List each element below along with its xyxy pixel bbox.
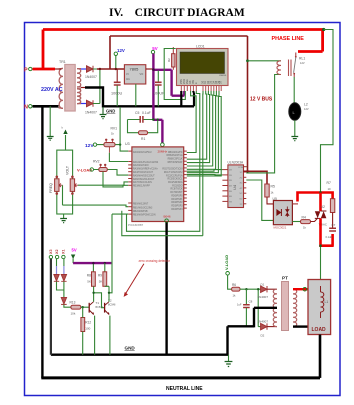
svg-text:C5: C5: [135, 111, 139, 115]
svg-text:RB4/AN11/PC: RB4/AN11/PC: [168, 151, 183, 154]
svg-text:5V: 5V: [72, 248, 77, 253]
svg-text:RA2/AN2/C2IN: RA2/AN2/C2IN: [133, 164, 149, 167]
wire U4 output to U5 pin2: [246, 180, 273, 220]
node 12V bus / R5 feed junction: [246, 170, 249, 173]
svg-text:1N4007: 1N4007: [258, 320, 269, 324]
svg-text:7C: 7C: [240, 204, 243, 206]
svg-text:RA5/AN4/SS/C2OUT: RA5/AN4/SS/C2OUT: [133, 174, 155, 177]
wire neutral line bottom: [41, 376, 320, 379]
svg-text:U2: U2: [321, 205, 325, 209]
svg-text:LM016L: LM016L: [219, 75, 227, 77]
svg-text:0.1uF: 0.1uF: [326, 235, 333, 239]
svg-text:R7: R7: [327, 181, 331, 185]
wire U5 pin4 to R4: [292, 221, 300, 223]
svg-text:1C: 1C: [240, 172, 243, 174]
wire 12V terminal down: [115, 56, 117, 70]
wire red PT secondary to LOAD: [293, 288, 308, 290]
wire X3 to ground bus: [50, 259, 52, 355]
wire red U5 pin6 up to triac node: [298, 193, 333, 202]
svg-text:N: N: [24, 105, 28, 111]
ground hanging from neutral wire: [49, 106, 51, 136]
wire R13 to T1 base: [81, 306, 89, 308]
node 5V rail junction at regulator output: [152, 68, 155, 71]
svg-text:VOLT: VOLT: [66, 165, 70, 175]
resistor R1: [128, 120, 158, 133]
svg-text:12V: 12V: [117, 48, 125, 53]
svg-text:VO: VO: [140, 72, 144, 76]
svg-text:RC0/T1OSO/T1CKI: RC0/T1OSO/T1CKI: [162, 169, 183, 171]
svg-text:R6: R6: [232, 283, 236, 287]
wire purple zc rail: [73, 262, 111, 264]
svg-text:7805: 7805: [130, 67, 140, 72]
wire black ground bus bottom: [51, 308, 277, 356]
svg-text:12V: 12V: [85, 143, 94, 149]
svg-text:BC548: BC548: [108, 304, 116, 307]
wire relay coil bottom to U4 output: [246, 75, 281, 173]
svg-text:R13: R13: [70, 301, 76, 305]
terminal MCU bottom: [165, 219, 169, 223]
svg-text:V-LOAD: V-LOAD: [224, 255, 229, 270]
svg-text:RD4/PSP4: RD4/PSP4: [171, 209, 183, 211]
wire red PO to primary: [55, 68, 62, 70]
svg-text:NEUTRAL LINE: NEUTRAL LINE: [166, 386, 203, 392]
svg-text:RD2/PSP2: RD2/PSP2: [171, 202, 183, 204]
wire black LOAD bottom to neutral line: [319, 335, 322, 378]
capacitor C2 100UF: [157, 71, 159, 82]
svg-text:RC7/RX/DT: RC7/RX/DT: [170, 192, 183, 194]
svg-text:3C: 3C: [240, 183, 243, 185]
wire VOLT wiper to MCU: [78, 182, 128, 185]
node 12V terminal junction: [115, 68, 117, 70]
wire lamp to ground: [294, 120, 296, 136]
svg-text:R8: R8: [87, 274, 91, 278]
diode D top 1N4007: [87, 66, 94, 72]
svg-text:100: 100: [85, 327, 90, 331]
svg-text:20MHz: 20MHz: [158, 150, 168, 154]
svg-text:FREQ: FREQ: [49, 183, 53, 193]
LED D4: [61, 275, 66, 282]
svg-text:RV2: RV2: [93, 160, 100, 164]
svg-text:2C: 2C: [240, 177, 243, 179]
wire LCD RS and E down to MCU: [187, 91, 196, 153]
svg-text:R9: R9: [98, 274, 102, 278]
svg-text:C7: C7: [332, 223, 336, 227]
node R9 top junction: [104, 262, 106, 264]
svg-text:12V: 12V: [300, 61, 305, 65]
wire LCD data bus D2..D7 down to MCU right pins: [187, 91, 207, 159]
svg-text:D2: D2: [261, 334, 265, 338]
wire rectifier output joining diodes: [93, 69, 124, 104]
svg-text:U3: U3: [125, 142, 130, 146]
wire neutral left vertical down to neutral line: [41, 106, 43, 378]
node 12V/relay coil junction: [246, 59, 249, 62]
regulator U1 7805: [124, 65, 145, 84]
wire transformer centre tap to ground rail: [81, 87, 86, 89]
svg-text:L1: L1: [325, 300, 329, 304]
wire 7805 GND pin to rail: [135, 84, 137, 106]
svg-text:10k: 10k: [71, 312, 76, 316]
svg-text:RA7/OSC1/CLKIN: RA7/OSC1/CLKIN: [133, 181, 152, 184]
svg-text:X1: X1: [62, 249, 66, 254]
wire FREQ wiper to MCU: [63, 185, 129, 207]
node rectifier output junction: [99, 68, 101, 70]
svg-text:6C: 6C: [240, 199, 243, 201]
svg-text:B046: B046: [164, 215, 171, 219]
ground at bus: [228, 355, 230, 361]
wire wrap-around under MCU: [202, 91, 204, 236]
wire phase line thick red: PO up, across top, down to relay: [33, 30, 324, 70]
svg-text:RA3/AN3/VREF+/C1IN+: RA3/AN3/VREF+/C1IN+: [133, 168, 159, 171]
wire T1 collector cross couple to T2 base: [94, 293, 105, 308]
svg-text:X2: X2: [55, 249, 59, 254]
wire RV1 to MCU pin1: [120, 145, 128, 152]
svg-text:4C: 4C: [240, 188, 243, 190]
svg-text:R4: R4: [302, 215, 306, 219]
wire T2 collector to R9: [105, 286, 109, 301]
wire D5 to R13: [64, 304, 71, 307]
wire T1 collector to R8: [93, 286, 95, 301]
svg-text:C8: C8: [249, 300, 253, 304]
wire green right-side drop from phase to triac node: [321, 30, 334, 193]
ground below pot box: [63, 214, 65, 218]
capacitor C1 1000U: [116, 69, 118, 82]
load box: [308, 280, 331, 335]
svg-text:ULN2003A: ULN2003A: [228, 161, 244, 165]
wire LEDs join: [57, 282, 64, 298]
svg-text:10: 10: [328, 187, 332, 191]
wire RV1 wiper down to MCU: [108, 147, 110, 153]
svg-text:RB6/ICSPCLK: RB6/ICSPCLK: [168, 159, 183, 161]
wire V-LOAD to R6: [228, 275, 232, 289]
svg-text:MOC3021: MOC3021: [274, 226, 287, 230]
node 5V/C5 junction: [152, 118, 155, 121]
ground below lamp: [291, 137, 298, 141]
ground symbol below rail corner: [102, 107, 104, 114]
svg-text:RD0/PSP0: RD0/PSP0: [171, 196, 183, 198]
svg-text:12V: 12V: [304, 107, 309, 111]
svg-text:1uF: 1uF: [237, 303, 242, 307]
svg-text:RC3/SCK/SCL: RC3/SCK/SCL: [167, 179, 183, 181]
wire blue diode feeds: [81, 68, 87, 70]
svg-text:TR1: TR1: [59, 60, 66, 64]
svg-text:R2: R2: [167, 58, 171, 62]
LCD pins: [181, 86, 221, 92]
svg-text:PIC16F887: PIC16F887: [128, 223, 144, 227]
node phase/green junction top right: [322, 28, 325, 31]
svg-text:RV1: RV1: [111, 127, 118, 131]
svg-text:220V AC: 220V AC: [41, 87, 63, 93]
svg-text:RA1/AN1/PLUG/C12INS: RA1/AN1/PLUG/C12INS: [133, 161, 159, 164]
svg-text:1000U: 1000U: [111, 92, 122, 96]
wire R5 to U5 pin1: [267, 197, 273, 204]
svg-text:RE3/MCLR/VPP: RE3/MCLR/VPP: [133, 186, 150, 188]
MCU pin name text columns: [133, 151, 159, 217]
node 5V arrow feed to pot box: [65, 135, 67, 150]
svg-text:RA4/T0CKI/C1OUT: RA4/T0CKI/C1OUT: [133, 171, 154, 174]
svg-text:RD1/PSP1: RD1/PSP1: [171, 199, 183, 201]
svg-text:RD3/PSP3: RD3/PSP3: [171, 206, 183, 208]
wire black PT secondary bottom to LOAD: [293, 325, 308, 327]
svg-text:RB7/ICSPDAT: RB7/ICSPDAT: [168, 161, 183, 164]
svg-text:zero crossing detector: zero crossing detector: [139, 259, 171, 263]
svg-text:U1: U1: [126, 77, 130, 81]
node triac/phase junction: [319, 191, 322, 194]
svg-text:P: P: [24, 68, 28, 74]
svg-text:U4: U4: [232, 184, 237, 190]
wire green VEE loop around LCD left: [164, 49, 185, 100]
svg-text:100UF: 100UF: [153, 92, 165, 96]
wire relay coil top to 12V bus: [248, 60, 282, 62]
wire red triac MT1 down and snubber bottom: [319, 218, 334, 245]
svg-text:RA6/OSC2/CLKOUT: RA6/OSC2/CLKOUT: [133, 178, 155, 181]
svg-text:RB1/AN10/C12IN3: RB1/AN10/C12IN3: [133, 206, 153, 209]
svg-text:IV. CIRCUIT DIAGRAM: IV. CIRCUIT DIAGRAM: [109, 7, 245, 19]
wire purple 5V rail: [153, 54, 184, 143]
wire R4 to triac gate: [311, 218, 318, 221]
svg-text:LOAD: LOAD: [312, 327, 327, 333]
svg-text:RC1/T1OSI/CCP2: RC1/T1OSI/CCP2: [164, 172, 183, 174]
wire black ground rail to LCD VSS and RW: [181, 91, 194, 106]
pot box FREQ / VOLT: [57, 150, 73, 214]
svg-text:5K: 5K: [99, 280, 103, 284]
wire R7 to C7: [332, 213, 334, 228]
svg-text:RC2/CCP1/P1A: RC2/CCP1/P1A: [166, 174, 183, 177]
wire green triac output down to load: [320, 246, 322, 280]
svg-text:RC6/TX/CK: RC6/TX/CK: [171, 189, 183, 191]
svg-text:PHASE LINE: PHASE LINE: [272, 36, 305, 42]
MCU left pins: [128, 151, 132, 214]
wire black MCU ground down to bus: [165, 223, 167, 355]
svg-text:RB3/AN9/PGM/C12IN: RB3/AN9/PGM/C12IN: [133, 214, 156, 217]
node R1/C5 junction: [157, 118, 159, 120]
svg-text:RL1: RL1: [299, 57, 305, 61]
svg-text:RB2/AN8/P1B: RB2/AN8/P1B: [133, 210, 148, 213]
LED D3: [54, 275, 59, 282]
svg-text:1N4007: 1N4007: [85, 75, 97, 79]
wire relay switch to lamp: [293, 77, 295, 103]
svg-text:R1: R1: [141, 137, 145, 141]
svg-text:L2: L2: [304, 103, 308, 107]
wire 12V vertical feed from GND-rail area down to RV2 line: [119, 107, 121, 145]
svg-text:12 V BUS: 12 V BUS: [250, 97, 273, 103]
svg-text:RA0/AN0/ULPWU: RA0/AN0/ULPWU: [133, 151, 152, 154]
wire dark red 12V bus down right side: [243, 36, 267, 184]
svg-text:R12: R12: [85, 321, 91, 325]
wire red triac MT2: [319, 193, 322, 212]
diode D5: [61, 297, 67, 304]
wire T2 collector output up to MCU: [109, 214, 128, 293]
MCU right pins: [184, 151, 187, 208]
wire U4 COM pin to 12V bus: [246, 166, 247, 168]
U4 pins: [222, 167, 246, 204]
wire dark red DC rail into 7805 and up to 12V bus: [97, 36, 248, 69]
wires MCU to U4 inputs: [187, 170, 223, 172]
svg-text:R5: R5: [271, 185, 275, 189]
svg-text:0.1uF: 0.1uF: [142, 111, 151, 115]
wire R6 to diodes: [240, 289, 261, 326]
svg-text:T1: T1: [96, 301, 100, 305]
svg-text:X3: X3: [49, 249, 53, 254]
diode D bottom 1N4007: [87, 100, 94, 106]
wire T1 emitter to ground bus: [94, 316, 96, 355]
wire neutral from N to transformer: [33, 105, 59, 108]
svg-text:GND: GND: [125, 346, 136, 351]
wire RV2 to MCU: [109, 170, 129, 176]
svg-text:RC4/SDI/SDA: RC4/SDI/SDA: [168, 181, 183, 184]
svg-text:RB0/AN12/INT: RB0/AN12/INT: [133, 203, 149, 206]
svg-text:VI: VI: [126, 72, 129, 76]
svg-text:1N4007: 1N4007: [258, 295, 269, 299]
svg-text:1N4007: 1N4007: [85, 111, 97, 115]
svg-text:5K: 5K: [87, 280, 91, 284]
wire 7805 output: [146, 68, 154, 70]
svg-text:PT: PT: [282, 276, 288, 281]
wire X2 X1 down to LEDs: [56, 259, 58, 266]
svg-text:RC5/SDO: RC5/SDO: [172, 185, 182, 187]
terminal MCLR above MCU: [161, 143, 165, 147]
svg-text:RB5/AN13/T1G: RB5/AN13/T1G: [167, 154, 183, 157]
svg-text:GND: GND: [106, 109, 115, 114]
svg-text:COM: COM: [238, 167, 243, 169]
wire T2 emitter to ground bus: [109, 316, 111, 355]
svg-text:5C: 5C: [240, 193, 243, 195]
